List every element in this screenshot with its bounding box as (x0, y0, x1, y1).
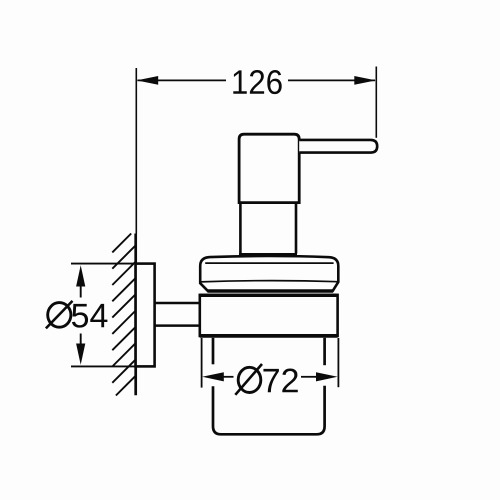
dimension O54 top extension line (71, 263, 155, 265)
holder ring bottom edge (200, 334, 338, 338)
pump neck left edge (239, 203, 242, 254)
wall plate (136, 264, 155, 367)
dimension 126 line right segment (288, 79, 375, 81)
dimension 126 right arrowhead (354, 76, 376, 85)
dimension O72 right extension line (337, 338, 339, 387)
glass tumbler right edge upper segment (323, 338, 326, 365)
holder arm top line (155, 302, 200, 305)
pump neck right edge (295, 203, 298, 254)
pump head (239, 134, 299, 202)
glass tumbler left edge upper segment (212, 338, 215, 365)
holder arm bottom line (155, 324, 200, 327)
wall surface line (134, 234, 137, 396)
dimension O54 bottom arrowhead (76, 344, 85, 365)
glass tumbler lower outline (213, 386, 325, 435)
dome inner top line (205, 262, 333, 264)
dimension O54 upper shaft (80, 286, 82, 298)
dimension 126 line left segment (138, 79, 227, 81)
dimension 126 left extension line (135, 68, 137, 234)
dimension O54 bottom extension line (71, 365, 155, 367)
dimension O72 right segment (301, 376, 317, 378)
dimension text O72 (235, 364, 262, 395)
dimension O54 top arrowhead (76, 265, 85, 286)
dimension text O54 (46, 301, 73, 329)
dome bottom edge (208, 289, 334, 292)
pump collar (239, 253, 297, 256)
dimension 126 left arrowhead (137, 76, 159, 85)
dimension 126 right extension line (375, 67, 377, 138)
wall hatching (112, 234, 135, 396)
holder ring body (200, 295, 338, 336)
dome seam line (200, 281, 338, 282)
dimension O72 left extension line (201, 338, 203, 388)
dimension O54 lower shaft (80, 334, 82, 345)
bottle shoulder dome (200, 256, 338, 291)
dimension O72 right arrowhead (316, 372, 338, 381)
dimension O72 left arrowhead (202, 372, 224, 381)
pump lever (299, 140, 377, 153)
holder ring top edge (200, 294, 338, 297)
dimension O72 left segment (223, 376, 234, 378)
dimension text 126 (233, 70, 281, 94)
